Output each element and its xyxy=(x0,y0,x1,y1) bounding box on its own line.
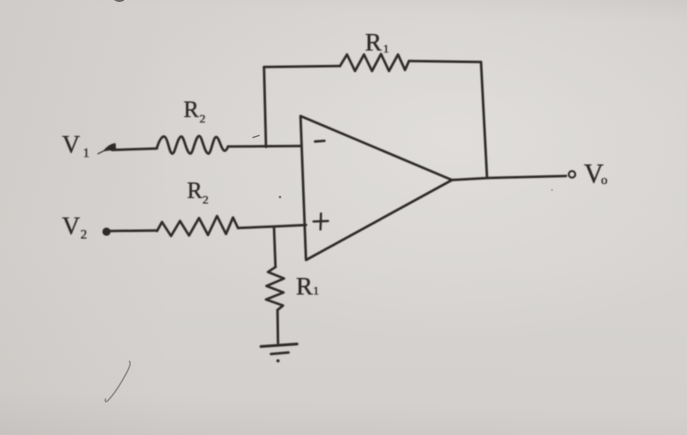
wire (feedback top right) xyxy=(409,61,481,62)
svg-text:R: R xyxy=(184,97,200,122)
ground xyxy=(261,344,297,362)
wire (down to R1) xyxy=(274,227,276,267)
terminal V1 xyxy=(98,144,116,154)
svg-text:R: R xyxy=(296,274,313,301)
resistor R2 (bottom, V2 input) xyxy=(157,216,238,236)
svg-text:R: R xyxy=(187,178,203,203)
terminal Vo xyxy=(569,171,576,178)
wire xyxy=(228,145,301,148)
svg-text:1: 1 xyxy=(83,145,90,160)
svg-text:2: 2 xyxy=(81,227,88,242)
svg-text:R: R xyxy=(365,30,382,57)
label R2 (bottom) xyxy=(187,178,209,207)
label R1 (to ground) xyxy=(296,274,319,301)
terminal V2 xyxy=(103,228,110,235)
wire xyxy=(238,225,306,228)
pin + (non-inverting input) xyxy=(314,214,329,230)
label R2 (top) xyxy=(184,97,206,126)
node V2 xyxy=(62,213,87,242)
svg-text:V: V xyxy=(62,132,80,159)
resistor R2 (top, V1 input) xyxy=(157,136,228,154)
op-amp U1 xyxy=(301,116,453,260)
resistor R1 (to ground) xyxy=(266,267,284,310)
svg-text:1: 1 xyxy=(383,42,389,56)
svg-text:V: V xyxy=(62,213,80,240)
wire xyxy=(276,310,279,343)
pin - (inverting input) xyxy=(315,140,325,143)
wire xyxy=(112,149,157,151)
svg-text:2: 2 xyxy=(203,193,209,207)
wire (output) xyxy=(452,176,566,180)
wire (feedback right vertical) xyxy=(481,62,487,177)
wire (feedback top left) xyxy=(264,66,340,67)
node Vo xyxy=(584,159,608,189)
svg-text:o: o xyxy=(601,172,608,187)
stray marks first (decorative, unlabeled) xyxy=(105,0,553,402)
resistor R1 (feedback) xyxy=(340,54,409,71)
svg-text:2: 2 xyxy=(200,112,206,126)
svg-text:1: 1 xyxy=(313,284,319,298)
wire (feedback left vertical) xyxy=(264,67,266,147)
wire xyxy=(110,229,157,232)
label R1 (feedback) xyxy=(365,30,389,57)
node V1 xyxy=(62,132,90,161)
